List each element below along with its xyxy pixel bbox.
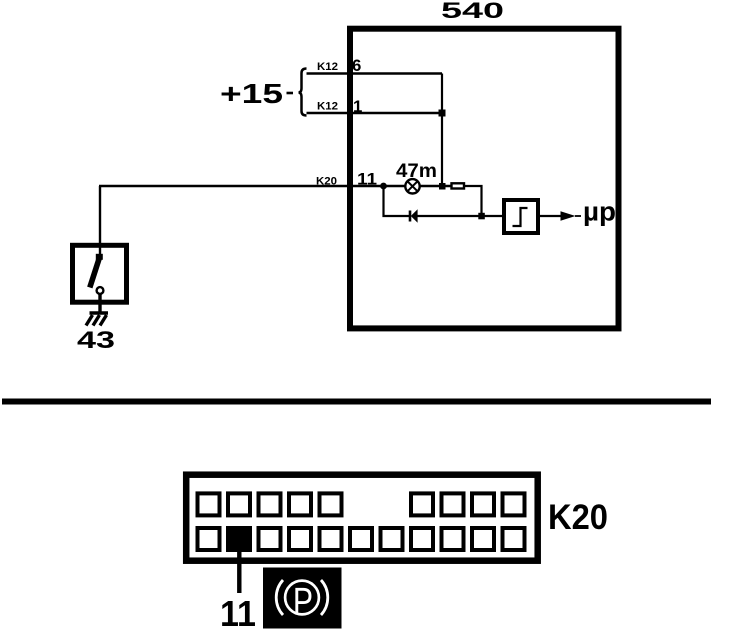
pin square top 9 [503,493,525,515]
svg-text:1: 1 [353,97,362,116]
svg-text:11: 11 [357,170,377,189]
wire resistor to corner [465,186,482,216]
parking brake indicator icon [263,568,342,629]
wire vertical bus [441,74,443,187]
junction lower [478,213,485,220]
chassis ground [86,313,108,326]
pin 11 filled square [226,526,252,552]
pin square bottom 5 [320,528,342,550]
resistor [452,183,465,188]
svg-text:540: 540 [441,0,504,23]
pin square bottom 3 [259,528,281,550]
output wire [540,215,561,217]
junction bus / lamp wire [439,183,446,190]
switch 43 box [73,245,127,302]
divider line [2,399,711,405]
svg-text:43: 43 [77,327,115,354]
pin square top 6 [411,493,433,515]
control unit box 540 [350,29,619,329]
pin square bottom 1 [198,528,220,550]
wire lower branch right [418,215,503,217]
junction node dot [380,183,387,190]
connector top row pins [198,493,525,515]
svg-text:47m: 47m [396,161,437,182]
wire K12 pin 6 [307,72,443,75]
pin square bottom 10 [472,528,494,550]
connector K20 outline [186,475,538,561]
pin square top 3 [259,493,281,515]
wire lower branch left [384,186,410,216]
switch wire top stub [99,245,101,257]
pin square top 2 [228,493,250,515]
switch lever [90,254,103,288]
junction K12-1 / bus [439,110,446,117]
lamp 47m [405,179,419,193]
pin square top 8 [472,493,494,515]
svg-text:11: 11 [220,593,256,632]
pin square top 7 [442,493,464,515]
pin square top 4 [289,493,311,515]
svg-text:6: 6 [352,56,361,75]
leader line from pin 11 [237,551,241,593]
switch wire bottom stub [98,294,101,312]
output arrow [561,211,576,220]
svg-text:K12: K12 [317,61,338,73]
svg-text:K20: K20 [548,498,608,537]
schmitt trigger box [504,200,538,233]
svg-text:K12: K12 [317,101,338,113]
connector bottom row pins [198,528,525,550]
brace [299,69,307,116]
svg-text:K20: K20 [316,176,337,188]
wire K12 pin 1 [307,112,443,115]
switch contact circle [97,287,104,294]
wire K20 pin 11 horizontal [99,185,451,187]
diode [410,209,418,223]
pin square bottom 7 [381,528,403,550]
wire after arrow [575,215,581,217]
svg-text:+15: +15 [220,78,283,109]
pin square bottom 6 [350,528,372,550]
svg-text:µp: µp [583,197,616,227]
wire switch vertical [99,186,101,245]
pin square top 1 [198,493,220,515]
pin square bottom 8 [411,528,433,550]
pin square top 5 [320,493,342,515]
pin square bottom 4 [289,528,311,550]
step symbol [513,208,528,226]
pin square bottom 9 [442,528,464,550]
dash after +15 [287,92,294,95]
pin square bottom 11 [503,528,525,550]
